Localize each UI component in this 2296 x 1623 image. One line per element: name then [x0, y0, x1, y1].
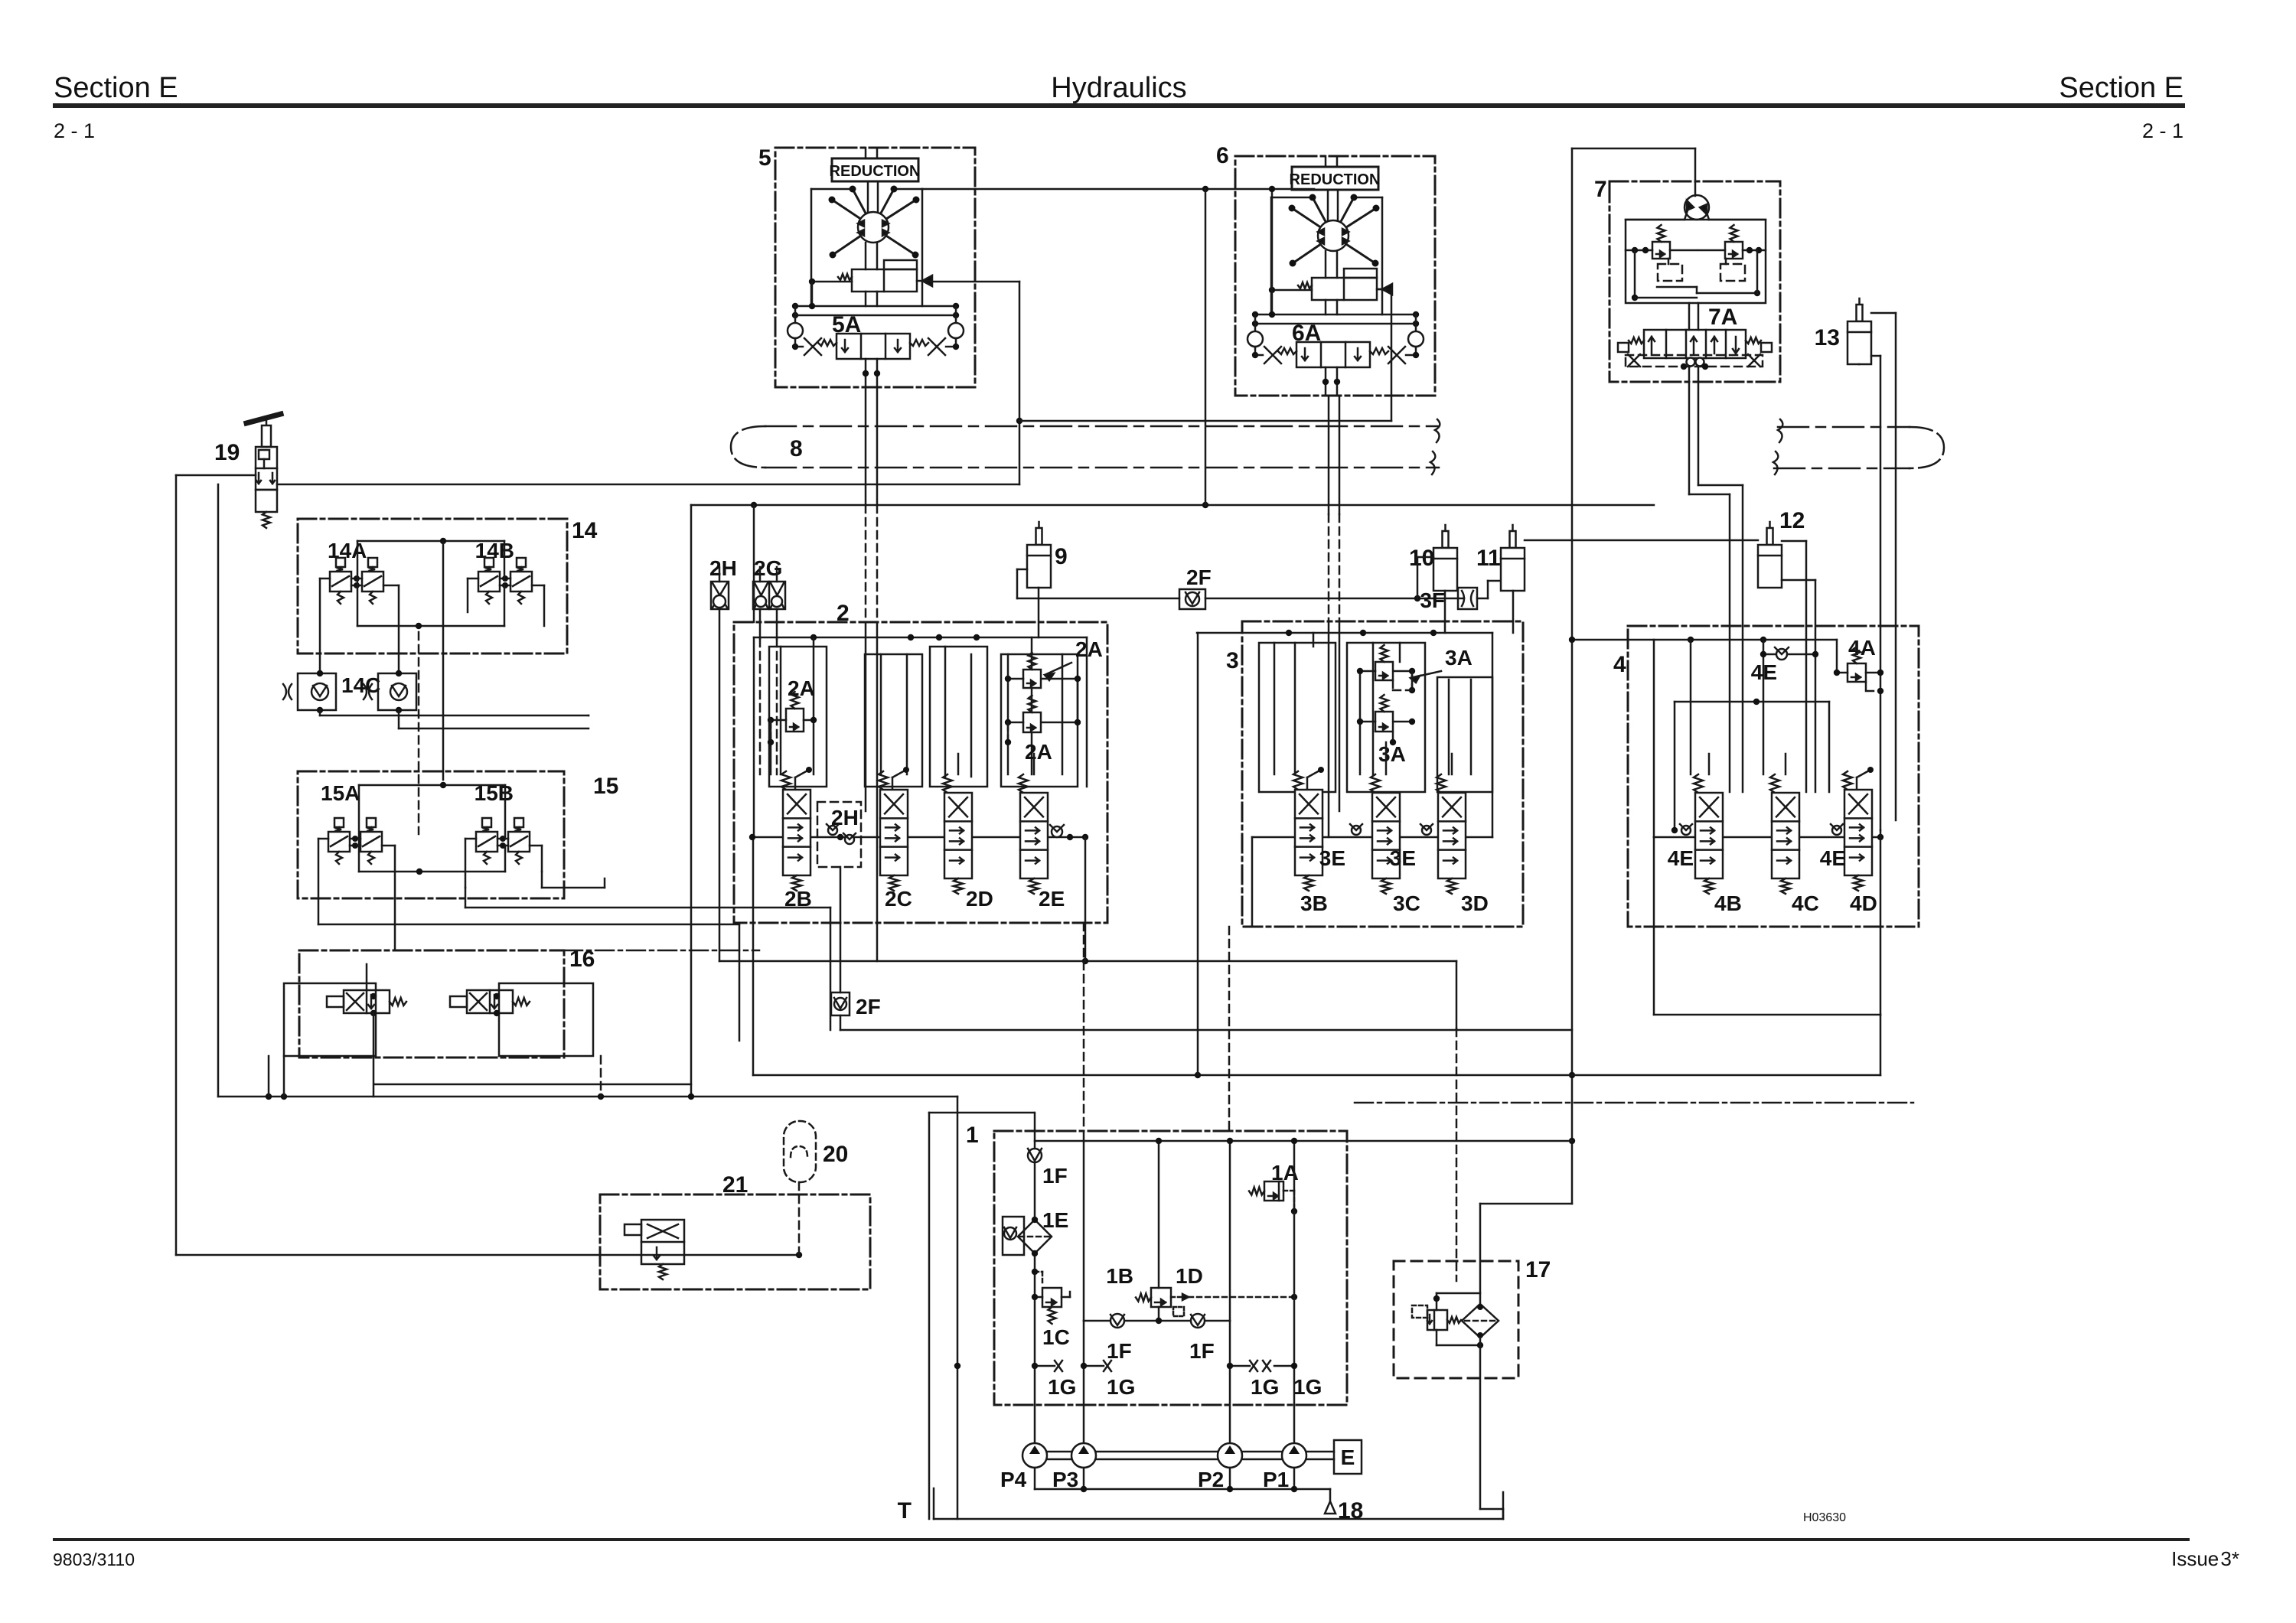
svg-text:1F: 1F [1107, 1339, 1132, 1363]
svg-text:7: 7 [1594, 177, 1607, 202]
label P2 [1198, 1468, 1224, 1491]
steer motor block 7 circuit [1609, 181, 1780, 382]
svg-text:2 - 1: 2 - 1 [54, 119, 95, 142]
label 4E bottom left [1668, 846, 1694, 870]
bypass relief 17 [1412, 1293, 1483, 1348]
label 2D [966, 887, 993, 911]
wheel motor block 5 with brake valve 5A [775, 148, 975, 387]
block 1 dash-dot box [994, 1131, 1347, 1405]
label 1E [1042, 1208, 1068, 1232]
block number 7 [1594, 177, 1607, 202]
page number right 2 - 1 [2142, 119, 2183, 142]
label 15B [475, 781, 514, 805]
wire steer riser x2058 [1569, 148, 1695, 1204]
svg-text:P1: P1 [1263, 1468, 1289, 1491]
labels 1B 1D [1106, 1264, 1203, 1288]
svg-text:1C: 1C [1042, 1325, 1070, 1349]
block 16 dash-dot box [299, 950, 759, 1058]
label 3E right [1390, 846, 1416, 870]
svg-text:4E: 4E [1668, 846, 1694, 870]
pump suction collector [1035, 1468, 1330, 1501]
footer left 9803/3110 [53, 1550, 135, 1569]
filter 17 drain [1480, 1338, 1503, 1519]
header left: Section E [54, 72, 178, 104]
cylinder 9 [1027, 522, 1051, 588]
spool valve 3D [1437, 774, 1466, 894]
wire block5 pilot to junction [931, 281, 1019, 283]
check valves 1F middle [1084, 1314, 1230, 1328]
svg-text:2A: 2A [1075, 637, 1103, 661]
spool valve 4C [1770, 774, 1799, 894]
block 3 dash-dot box [1242, 621, 1523, 927]
label 4 [1613, 652, 1626, 677]
cylinder 11 [1501, 525, 1525, 591]
label 9 [1055, 544, 1068, 569]
wire motor case drain bus y660 [691, 502, 1654, 508]
svg-text:9803/3110: 9803/3110 [53, 1550, 135, 1569]
svg-text:1B: 1B [1106, 1264, 1133, 1288]
label 4D [1850, 891, 1877, 915]
svg-text:6: 6 [1216, 143, 1229, 168]
svg-text:2H: 2H [709, 556, 737, 580]
drawing number H03630 [1803, 1511, 1846, 1524]
wire brake pilot from valve19 y635 [277, 282, 1391, 484]
wire left drop from bus [690, 505, 693, 1097]
steering priority valve 7A [1618, 303, 1772, 370]
pump P3 [1071, 1443, 1096, 1468]
spool valve 2C [879, 767, 909, 891]
check 4E bottom right [1831, 824, 1843, 835]
label 14A [328, 539, 367, 562]
engine box E [1334, 1440, 1362, 1474]
pilot caps 4B 4C [1709, 754, 1786, 774]
svg-text:2 - 1: 2 - 1 [2142, 119, 2183, 142]
svg-text:10: 10 [1409, 546, 1434, 571]
svg-text:2: 2 [837, 601, 850, 626]
block 21 dash-dot box [600, 1194, 870, 1289]
label 3D [1461, 891, 1489, 915]
block 17 dashed box [1394, 1261, 1518, 1378]
svg-text:2A: 2A [788, 676, 815, 700]
wire supply riser x1564 [1197, 633, 1199, 1075]
svg-text:14: 14 [572, 518, 598, 543]
wire valve19 supply left [176, 475, 802, 1258]
valve bank 3 frame [1197, 630, 1492, 927]
spool valve 3C [1371, 774, 1400, 894]
svg-text:3D: 3D [1461, 891, 1489, 915]
relief valve 1A [1249, 1181, 1297, 1214]
cylinder 12 [1758, 522, 1782, 588]
svg-text:16: 16 [569, 947, 595, 972]
label 8 [790, 436, 803, 461]
relief valve 2A left [768, 676, 817, 745]
wire return bus y1405 [753, 837, 1880, 1078]
check valve near 2E [1050, 825, 1064, 837]
pilot control valve 19 [246, 414, 281, 528]
spool valve 2E [1019, 774, 1048, 894]
relief valve 3A lower [1357, 695, 1415, 766]
block number 5 [758, 145, 771, 171]
check 4E bottom left [1680, 824, 1692, 835]
label 17 [1525, 1257, 1551, 1282]
relief valve 1C [1032, 1269, 1070, 1324]
svg-text:P4: P4 [1000, 1468, 1027, 1491]
block 14 dash-dot box [298, 519, 567, 653]
svg-text:14A: 14A [328, 539, 367, 562]
label 3C [1393, 891, 1420, 915]
filter 1E [1003, 1217, 1052, 1256]
label 1F top [1042, 1164, 1068, 1188]
label 19 [214, 440, 240, 465]
wire block5 drain down left [865, 387, 867, 811]
relief valve 2A right lower [1005, 696, 1081, 764]
svg-text:2E: 2E [1039, 887, 1065, 911]
load check 2H lower [817, 802, 861, 992]
label 3 [1226, 648, 1239, 673]
svg-text:3B: 3B [1300, 891, 1328, 915]
wire bottom bus y1433 [218, 1093, 957, 1100]
wire tank link y1454 [929, 1113, 1034, 1519]
articulation joint 8 outline [731, 419, 1944, 474]
wire tank bus T [934, 1488, 1503, 1519]
cylinder 10 [1433, 525, 1457, 591]
relief valve 4A [1834, 636, 1883, 694]
label 3E left [1319, 846, 1345, 870]
label 12 [1779, 508, 1805, 533]
svg-text:Hydraulics: Hydraulics [1051, 72, 1186, 104]
spool valve 2B [781, 767, 812, 891]
label 13 [1815, 325, 1840, 350]
pump P1 [1282, 1443, 1306, 1468]
check valve 4E top [1751, 647, 1818, 684]
accumulator 20 [784, 1121, 816, 1255]
filter 17 [1462, 1304, 1499, 1338]
spool valve 4B [1694, 774, 1723, 894]
svg-text:5: 5 [758, 145, 771, 171]
labels 1G [1048, 1375, 1322, 1399]
check/throttle unit 14C [283, 670, 416, 713]
block 16 internal wires [269, 964, 691, 1097]
footer rule [53, 1538, 2190, 1541]
relief valve 2A right upper [1005, 637, 1103, 688]
label P3 [1052, 1468, 1078, 1491]
block number 6 [1216, 143, 1229, 168]
block 15 internal wires [318, 782, 830, 1041]
check 3E left [1350, 824, 1362, 835]
wire block6 drain down right [1339, 396, 1341, 811]
counterbalance pair 15B [476, 818, 530, 864]
svg-text:P3: P3 [1052, 1468, 1078, 1491]
wire valve19 port2 drop [217, 484, 220, 1097]
svg-text:4A: 4A [1848, 636, 1876, 660]
check valve 1F top [1028, 1113, 1042, 1443]
label 3B [1300, 891, 1328, 915]
pump P2 [1218, 1443, 1242, 1468]
header center: Hydraulics [1051, 72, 1186, 104]
footer right Issue 3* [2171, 1547, 2239, 1570]
svg-text:3A: 3A [1378, 742, 1406, 766]
svg-text:2C: 2C [885, 887, 912, 911]
block 14 internal wires [320, 538, 544, 834]
pump shafts [1047, 1452, 1334, 1459]
label 3F [1420, 588, 1445, 612]
spool valve 4D [1843, 767, 1874, 891]
block 2 dash-dot box [734, 622, 1107, 923]
header right: Section E [2059, 72, 2183, 104]
label P1 [1263, 1468, 1289, 1491]
pilot caps 2D 2E [958, 754, 1034, 774]
wire block6 drain down left [1328, 396, 1330, 837]
svg-text:15A: 15A [321, 781, 360, 805]
label P4 [1000, 1468, 1027, 1491]
svg-text:Section E: Section E [2059, 72, 2183, 104]
svg-text:2A: 2A [1025, 740, 1052, 764]
svg-text:1G: 1G [1293, 1375, 1322, 1399]
wire cyl13 [1859, 313, 1896, 830]
supply line y1491 [1035, 1138, 1572, 1304]
svg-text:3F: 3F [1420, 588, 1445, 612]
block 4 dash-dot box [1628, 626, 1919, 927]
svg-text:9: 9 [1055, 544, 1068, 569]
label 14B [475, 539, 514, 562]
svg-text:4: 4 [1613, 652, 1626, 677]
shuttle valves 2G [753, 556, 785, 774]
svg-text:11: 11 [1476, 546, 1501, 571]
spool valve 3B [1293, 767, 1324, 891]
svg-text:4E: 4E [1751, 660, 1777, 684]
svg-text:E: E [1341, 1445, 1355, 1469]
cylinder 13 [1848, 298, 1871, 364]
svg-text:15: 15 [593, 774, 618, 799]
svg-text:2B: 2B [784, 887, 812, 911]
pump risers [1084, 923, 1294, 1443]
label 16 [569, 947, 595, 972]
wire cyl12 [1782, 541, 1815, 792]
label 21 [722, 1172, 748, 1198]
svg-text:3C: 3C [1393, 891, 1420, 915]
svg-text:20: 20 [823, 1142, 848, 1167]
wire cyl11 [1513, 540, 1758, 633]
label 1 [966, 1123, 979, 1148]
svg-text:H03630: H03630 [1803, 1511, 1846, 1524]
wire block5 pilot cross link y247 [922, 186, 1314, 192]
label 2B [784, 887, 812, 911]
svg-text:2F: 2F [1186, 565, 1212, 589]
test points 1G [1032, 1361, 1297, 1371]
wire cyl9 [1017, 569, 1039, 637]
wire block5 drain down right [876, 387, 879, 961]
spool valve 2D [943, 774, 972, 894]
wire 14C outputs [320, 710, 589, 728]
labels 1F middle [1107, 1339, 1215, 1363]
svg-text:4C: 4C [1792, 891, 1819, 915]
counterbalance pair 14A [330, 558, 383, 604]
label 2C [885, 887, 912, 911]
wheel motor block 6 with brake valve 6A [1235, 156, 1435, 396]
header rule [53, 103, 2185, 108]
wire trunk x1575 [1205, 189, 1207, 505]
wire tank drop x1251 [954, 1097, 960, 1519]
label 20 [823, 1142, 848, 1167]
svg-text:1E: 1E [1042, 1208, 1068, 1232]
wire 7A drain left jog [1689, 367, 1730, 792]
label 4C [1792, 891, 1819, 915]
check valve 2F upper [1179, 565, 1212, 609]
svg-text:4E: 4E [1820, 846, 1846, 870]
svg-text:17: 17 [1525, 1257, 1551, 1282]
solenoid valve 21 [625, 1220, 684, 1279]
check valve 2F lower [831, 992, 1572, 1030]
svg-text:1G: 1G [1251, 1375, 1279, 1399]
svg-text:1: 1 [966, 1123, 979, 1148]
drain plug 18 [1325, 1498, 1363, 1524]
counterbalance pair 14B [478, 558, 532, 604]
svg-text:14C: 14C [341, 673, 380, 697]
valve bank 2 frame [749, 505, 1088, 961]
svg-text:1F: 1F [1042, 1164, 1068, 1188]
svg-text:Issue 3*: Issue 3* [2171, 1547, 2239, 1570]
svg-text:4B: 4B [1714, 891, 1742, 915]
wire pilot bus y782 [1017, 581, 1501, 601]
page number left 2 - 1 [54, 119, 95, 142]
wire cyl10 [1417, 557, 1445, 633]
solenoid valve 16 right [450, 990, 530, 1013]
svg-text:1F: 1F [1189, 1339, 1215, 1363]
label 4E bottom right [1820, 846, 1846, 870]
svg-text:14B: 14B [475, 539, 514, 562]
svg-text:T: T [898, 1498, 912, 1524]
svg-text:1G: 1G [1048, 1375, 1076, 1399]
svg-text:3: 3 [1226, 648, 1239, 673]
svg-text:4D: 4D [1850, 891, 1877, 915]
relief valve 3A upper [1357, 645, 1473, 693]
boundary dash-dot y1441 [1355, 1102, 1913, 1104]
label 2 [837, 601, 850, 626]
label 11 [1476, 546, 1501, 571]
svg-text:3E: 3E [1319, 846, 1345, 870]
svg-text:1D: 1D [1176, 1264, 1203, 1288]
svg-text:19: 19 [214, 440, 240, 465]
label 15 [593, 774, 618, 799]
svg-text:13: 13 [1815, 325, 1840, 350]
svg-text:REDUCTION: REDUCTION [1290, 171, 1381, 188]
svg-text:REDUCTION: REDUCTION [830, 163, 921, 180]
pilot caps 3C 3D [1386, 742, 1452, 774]
check 3E right [1420, 824, 1433, 835]
svg-text:2F: 2F [856, 995, 881, 1018]
label 2E [1039, 887, 1065, 911]
counterbalance pair 15A [328, 818, 382, 864]
svg-text:1G: 1G [1107, 1375, 1135, 1399]
svg-text:2G: 2G [754, 556, 782, 580]
label 10 [1409, 546, 1434, 571]
unloader valve 1B/1D [1136, 1141, 1297, 1321]
svg-text:3E: 3E [1390, 846, 1416, 870]
shuttle valve 2H top [709, 556, 1456, 1281]
svg-text:3A: 3A [1445, 646, 1473, 670]
block 15 dash-dot box [298, 771, 564, 898]
orifice 3F [1458, 588, 1477, 609]
svg-text:2D: 2D [966, 887, 993, 911]
svg-text:Section E: Section E [54, 72, 178, 104]
valve bank 4 frame [1569, 637, 1883, 1075]
label 1A [1271, 1161, 1299, 1185]
svg-text:18: 18 [1338, 1498, 1363, 1524]
label 15A [321, 781, 360, 805]
label T [898, 1498, 912, 1524]
label 1C [1042, 1325, 1070, 1349]
svg-text:P2: P2 [1198, 1468, 1224, 1491]
label 4B [1714, 891, 1742, 915]
wire 7A drain right jog [1698, 367, 1743, 792]
svg-text:12: 12 [1779, 508, 1805, 533]
svg-text:7A: 7A [1708, 305, 1737, 330]
svg-text:8: 8 [790, 436, 803, 461]
solenoid valve 16 left [327, 990, 406, 1013]
pump P4 [1022, 1443, 1047, 1468]
label 14 [572, 518, 598, 543]
